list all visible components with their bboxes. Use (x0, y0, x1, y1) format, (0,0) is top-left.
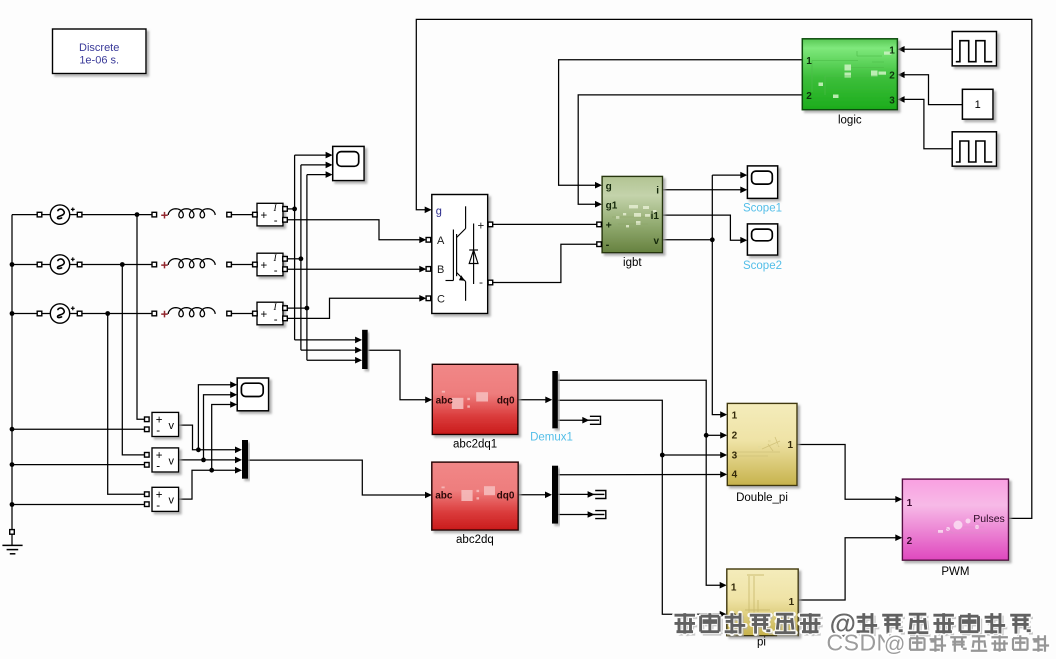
svg-text:abc2dq: abc2dq (456, 534, 494, 546)
svg-text:2: 2 (806, 91, 812, 102)
svg-text:2: 2 (907, 536, 913, 547)
svg-text:2: 2 (889, 71, 895, 82)
svg-text:-: - (274, 314, 278, 326)
svg-text:4: 4 (732, 470, 738, 481)
svg-text:C: C (437, 293, 445, 305)
svg-text:1: 1 (907, 498, 913, 509)
svg-text:-: - (156, 425, 160, 437)
svg-text:v: v (653, 236, 659, 247)
svg-text:v: v (169, 455, 175, 467)
svg-text:g: g (436, 206, 442, 218)
svg-text:PWM: PWM (941, 566, 969, 578)
svg-text:1: 1 (789, 597, 795, 608)
svg-text:+: + (261, 210, 268, 222)
svg-text:Pulses: Pulses (973, 513, 1005, 525)
svg-text:+: + (261, 260, 268, 272)
svg-text:g1: g1 (606, 201, 618, 212)
svg-text:-: - (156, 461, 160, 473)
svg-text:Double_pi: Double_pi (736, 492, 788, 504)
svg-text:1e-06 s.: 1e-06 s. (79, 55, 119, 67)
svg-text:abc: abc (435, 490, 453, 501)
svg-text:-: - (479, 275, 483, 289)
svg-text:logic: logic (838, 115, 862, 127)
svg-text:abc2dq1: abc2dq1 (453, 438, 497, 450)
svg-text:1: 1 (975, 99, 981, 111)
svg-text:Demux1: Demux1 (530, 431, 573, 443)
svg-text:1: 1 (889, 45, 895, 56)
svg-text:3: 3 (732, 450, 738, 461)
svg-text:pi: pi (757, 637, 766, 649)
svg-text:i1: i1 (651, 211, 660, 222)
svg-text:-: - (156, 500, 160, 512)
svg-text:Scope1: Scope1 (743, 203, 782, 215)
svg-text:+: + (478, 220, 485, 232)
svg-text:Discrete: Discrete (79, 42, 119, 54)
svg-text:3: 3 (889, 95, 895, 106)
svg-text:g: g (606, 182, 612, 193)
svg-text:+: + (261, 309, 268, 321)
svg-text:v: v (169, 495, 175, 507)
svg-text:+: + (606, 219, 612, 231)
svg-text:-: - (274, 215, 278, 227)
svg-text:1: 1 (806, 56, 812, 67)
svg-text:@: @ (884, 633, 905, 656)
svg-text:A: A (437, 235, 445, 247)
svg-text:dq0: dq0 (497, 395, 515, 406)
svg-text:-: - (274, 265, 278, 277)
svg-text:1: 1 (787, 440, 793, 451)
svg-text:abc: abc (436, 395, 454, 406)
svg-text:igbt: igbt (623, 257, 642, 269)
svg-text:Scope2: Scope2 (743, 260, 782, 272)
svg-text:2: 2 (732, 430, 738, 441)
svg-text:B: B (437, 264, 444, 276)
svg-text:1: 1 (732, 410, 738, 421)
svg-text:i: i (656, 186, 659, 197)
svg-text:-: - (606, 239, 610, 251)
svg-text:v: v (169, 420, 175, 432)
svg-text:1: 1 (731, 582, 737, 593)
svg-text:dq0: dq0 (497, 490, 515, 501)
